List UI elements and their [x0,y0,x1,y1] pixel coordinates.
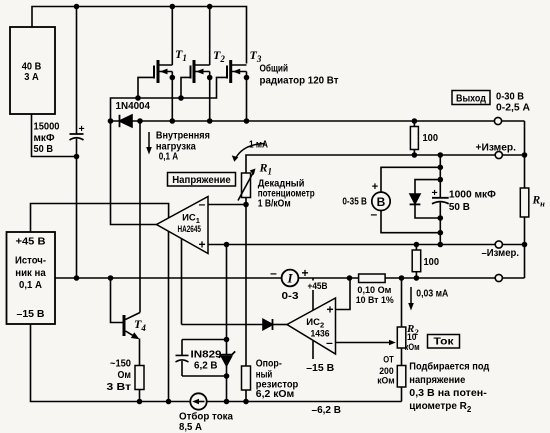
svg-text:3 Вт: 3 Вт [107,381,132,393]
op-amp U2 IC2 [287,298,336,354]
wire 6.2k bottom to rail [245,390,247,402]
svg-text:+45В: +45В [308,281,328,292]
wire D2 to IC2 output [273,324,288,326]
wire 150 ohm to rail [139,390,141,402]
svg-text:–15 В: –15 В [306,362,334,374]
svg-text:+: + [79,123,85,135]
svg-text:–15 В: –15 В [17,308,45,320]
svg-text:6,2 кОм: 6,2 кОм [256,388,295,400]
svg-text:–Измер.: –Измер. [482,247,520,259]
wire gate bus [111,77,228,121]
svg-text:Ток: Ток [434,336,455,348]
wire zener bottom to rail [226,376,228,402]
voltmeter V [372,192,390,210]
wire bottom rail [207,401,402,403]
zener IN829 bottom wire [182,375,227,377]
capacitor IN829 bypass [176,340,189,377]
capacitor C1 15000uF plates [70,134,84,140]
svg-text:кОм: кОм [405,342,420,353]
svg-text:3 А: 3 А [24,71,39,83]
wire clamp diode loop [415,180,440,218]
wire top positive rail [32,7,247,64]
svg-text:0-35 В: 0-35 В [342,196,367,208]
svg-text:+: + [372,181,378,193]
op-amp U1 IC1 [157,197,209,254]
svg-text:+45 В: +45 В [16,236,46,248]
svg-text:I: I [286,271,293,286]
svg-text:Подбирается под: Подбирается под [409,361,490,373]
svg-text:ник на: ник на [15,267,46,279]
wire voltmeter top [381,167,440,192]
svg-text:+: + [198,238,205,252]
label frame Tok [428,335,460,349]
wire T2 gate branch [181,77,191,98]
potentiometer R1 body [242,173,251,198]
wire IC2 V- pin stub [312,341,314,359]
diode clamp output [410,194,420,204]
wire IC1 clamp pin to diode line [181,239,183,325]
wire IC2 plus input riser [336,278,351,310]
annotation arrow 0.03mA [410,287,412,305]
wire voltmeter bottom [381,211,440,233]
wire R2 to OT resistor [401,348,403,366]
diode D2 [263,319,273,329]
wire IC2 V+ pin [312,278,314,310]
label frame Napryazhenie [168,91,491,349]
svg-text:50 В: 50 В [34,143,54,155]
svg-text:0,1 А: 0,1 А [159,150,179,162]
svg-text:радиатор 120 Вт: радиатор 120 Вт [260,75,339,87]
svg-text:0,03 мА: 0,03 мА [416,289,448,300]
wire IC1 inverting input lead [208,204,246,206]
wire supply box minus lead to rail [31,324,191,402]
wire R1 bottom to inverting node [245,198,247,205]
svg-text:–: – [370,207,377,221]
svg-text:1000 мкФ: 1000 мкФ [449,189,496,201]
svg-text:В: В [377,195,386,209]
potentiometer R1 top lead [246,155,525,173]
wire output line node [111,120,525,122]
resistor Rn load body [520,188,529,217]
svg-text:0,3 В на потен-: 0,3 В на потен- [409,388,487,399]
supply box +45V/-15V source [7,232,56,324]
capacitor C1 15000uF top lead [76,7,78,135]
label +45V pin [306,281,330,291]
wire IC2 minus input to R2 wiper [336,342,391,344]
svg-text:1N4004: 1N4004 [116,100,151,112]
transistor Q T1 mosfet [154,7,172,122]
svg-text:+: + [326,303,333,317]
svg-text:0-2,5 А: 0-2,5 А [496,102,530,114]
svg-text:T4: T4 [134,317,146,333]
svg-text:–6,2 В: –6,2 В [312,404,342,416]
svg-text:10 Вт 1%: 10 Вт 1% [356,295,395,306]
svg-text:–: – [270,266,277,280]
transistor Q T3 mosfet [227,60,247,121]
svg-text:+Измер.: +Измер. [476,141,517,153]
wire IC1 bottom pin to rail [168,232,170,402]
wire IC1 noninverting input / minus-sense line [208,244,525,246]
svg-text:кОм: кОм [377,376,395,387]
potentiometer R2 body [397,327,406,348]
output terminals open circles [494,117,502,281]
svg-text:100: 100 [424,256,440,268]
resistor 100 bottom body [415,245,417,279]
supply box 40V 3A [10,27,55,114]
svg-text:Выход: Выход [456,93,486,105]
svg-text:0,1 А: 0,1 А [19,279,42,291]
wire T1 gate branch [138,77,154,98]
wire R2 chain from sense line [401,278,403,327]
label frame Vykhod [452,91,490,105]
wire inverting node to reference resistor [245,205,247,367]
svg-text:~150: ~150 [110,357,131,369]
wire measurement column [439,155,441,245]
svg-text:ОТ: ОТ [383,355,394,366]
wire supply box common lead [55,277,282,279]
svg-text:T2: T2 [213,48,225,64]
svg-text:1 мА: 1 мА [249,140,268,151]
wire ammeter to right [298,277,524,279]
ammeter I [282,270,299,287]
svg-text:мкФ: мкФ [34,132,55,144]
svg-text:100: 100 [423,132,439,144]
wire clamp line to diode D2 [182,324,264,326]
transistor Q4 T4 [111,121,141,366]
svg-text:–: – [326,336,333,350]
zener VD IN829 block top wire [182,339,227,341]
svg-text:НА2645: НА2645 [177,224,201,235]
svg-text:0-3: 0-3 [282,290,299,302]
svg-text:+: + [301,266,308,280]
wire 200k to rail [401,387,403,402]
capacitor 1000uF plates [432,198,449,204]
svg-text:6,2 В: 6,2 В [194,360,218,372]
wire supply box plus45 top lead [31,204,169,233]
wire right rail [524,121,526,278]
potentiometer R1 arrow [238,172,254,201]
resistor 150 ohm body [135,366,144,390]
wire IC1 output to gate node [111,121,157,225]
svg-text:Напряжение: Напряжение [172,174,231,186]
svg-text:T1: T1 [175,47,187,63]
svg-text:1 В/кОм: 1 В/кОм [258,198,291,210]
wire zener column up to IC1 plus input [226,245,228,340]
resistor OT 200k body [397,366,406,388]
svg-text:напряжение: напряжение [409,375,465,386]
resistor 100 top body [413,121,415,155]
svg-text:Источ-: Источ- [15,255,46,267]
annotation arrow internal load [146,132,414,311]
svg-text:50 В: 50 В [449,201,470,213]
svg-text:Общий: Общий [260,63,289,75]
wire 40V box bottom lead [32,114,77,157]
transistor Q T2 mosfet [191,7,210,122]
svg-text:15000: 15000 [34,121,60,133]
capacitor C1 bottom lead [76,139,78,278]
current sink symbol Otbor toka [190,393,206,409]
zener diode IN829 [219,340,235,377]
annotation arrow 1mA curved [236,144,265,158]
svg-text:Ом: Ом [118,369,132,381]
resistor shunt 0.10 ohm body [359,274,386,283]
resistor reference 6.2k body [242,366,251,390]
svg-text:+: + [432,187,438,199]
svg-text:–: – [199,197,206,211]
diode D1 1N4004 [120,115,133,127]
svg-text:R1: R1 [259,161,273,177]
svg-text:циометре R2: циометре R2 [409,401,472,414]
svg-text:8,5 А: 8,5 А [179,421,202,433]
svg-text:Rн: Rн [532,195,546,209]
